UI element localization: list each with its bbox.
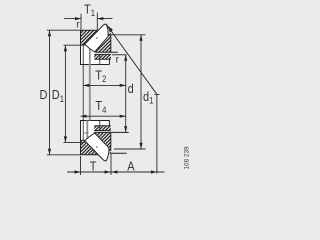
svg-text:D: D (40, 87, 48, 102)
hatch: shaft washer upper block (top) (81, 30, 99, 45)
bottom dimension line T and A with extension lines (67, 94, 165, 175)
label A (127, 159, 134, 174)
interior verticals through central gap (82, 65, 84, 121)
dimension T1 extension lines (64, 13, 112, 31)
interior vertical x=83.2 (bottom) (82, 121, 84, 141)
outline: pocket edge + y140.2 line (bottom) (81, 140, 99, 155)
T left arrow (75, 170, 81, 173)
A right arrow (151, 170, 157, 173)
roller barrel (bottom) (85, 133, 109, 161)
cage pocket tick (bottom) (84, 132, 89, 134)
bottom section white body (mirror) (81, 121, 111, 161)
dimension D1 (64, 45, 85, 142)
dimension D (47, 30, 81, 155)
hatch: shaft washer lip band (top) (94, 54, 111, 59)
roller barrel (top) (85, 24, 108, 52)
interior vertical x=99.8 (bottom) (99, 121, 101, 131)
shaft+housing washer top section white body (81, 24, 111, 64)
hatch: housing washer wedge (top) (95, 29, 111, 52)
svg-text:d: d (128, 81, 134, 96)
interior vertical x=83.2 (top) (82, 45, 84, 65)
outline: pocket edge + y44.8 line (top) (81, 30, 99, 45)
roller centre marks (top) (93, 33, 98, 38)
axis tick at cone apex (154, 93, 159, 95)
svg-text:108 239: 108 239 (183, 146, 190, 170)
svg-text:T: T (90, 159, 97, 174)
dimension T4 (81, 115, 126, 117)
load arrow on L2 (107, 25, 113, 32)
cage line gray (top) (89, 45, 91, 65)
hatch: shaft washer lower block (bottom) (81, 140, 99, 155)
hatch: shaft washer lip band (bottom) (94, 126, 111, 131)
label T (bottom) (90, 159, 97, 174)
cage line gray (bottom) (86, 121, 88, 141)
roller centre marks (bottom) (93, 146, 98, 151)
A left arrow (111, 170, 117, 173)
cage gray through gap (89, 65, 91, 121)
T right arrow (105, 170, 111, 173)
hatch: housing washer wedge (bottom) (95, 132, 111, 155)
label T1 (84, 2, 95, 19)
interior vertical x=99.8 (top) (99, 54, 101, 64)
outline: bottom section (81, 121, 129, 155)
T1 arrows (75, 17, 81, 20)
dimension d (112, 55, 127, 132)
outline: top section (81, 30, 118, 64)
pressure cone line L2 (106, 24, 156, 94)
dimension T2 (83, 84, 126, 86)
svg-text:A: A (127, 159, 134, 174)
dimension d1 (111, 35, 146, 149)
